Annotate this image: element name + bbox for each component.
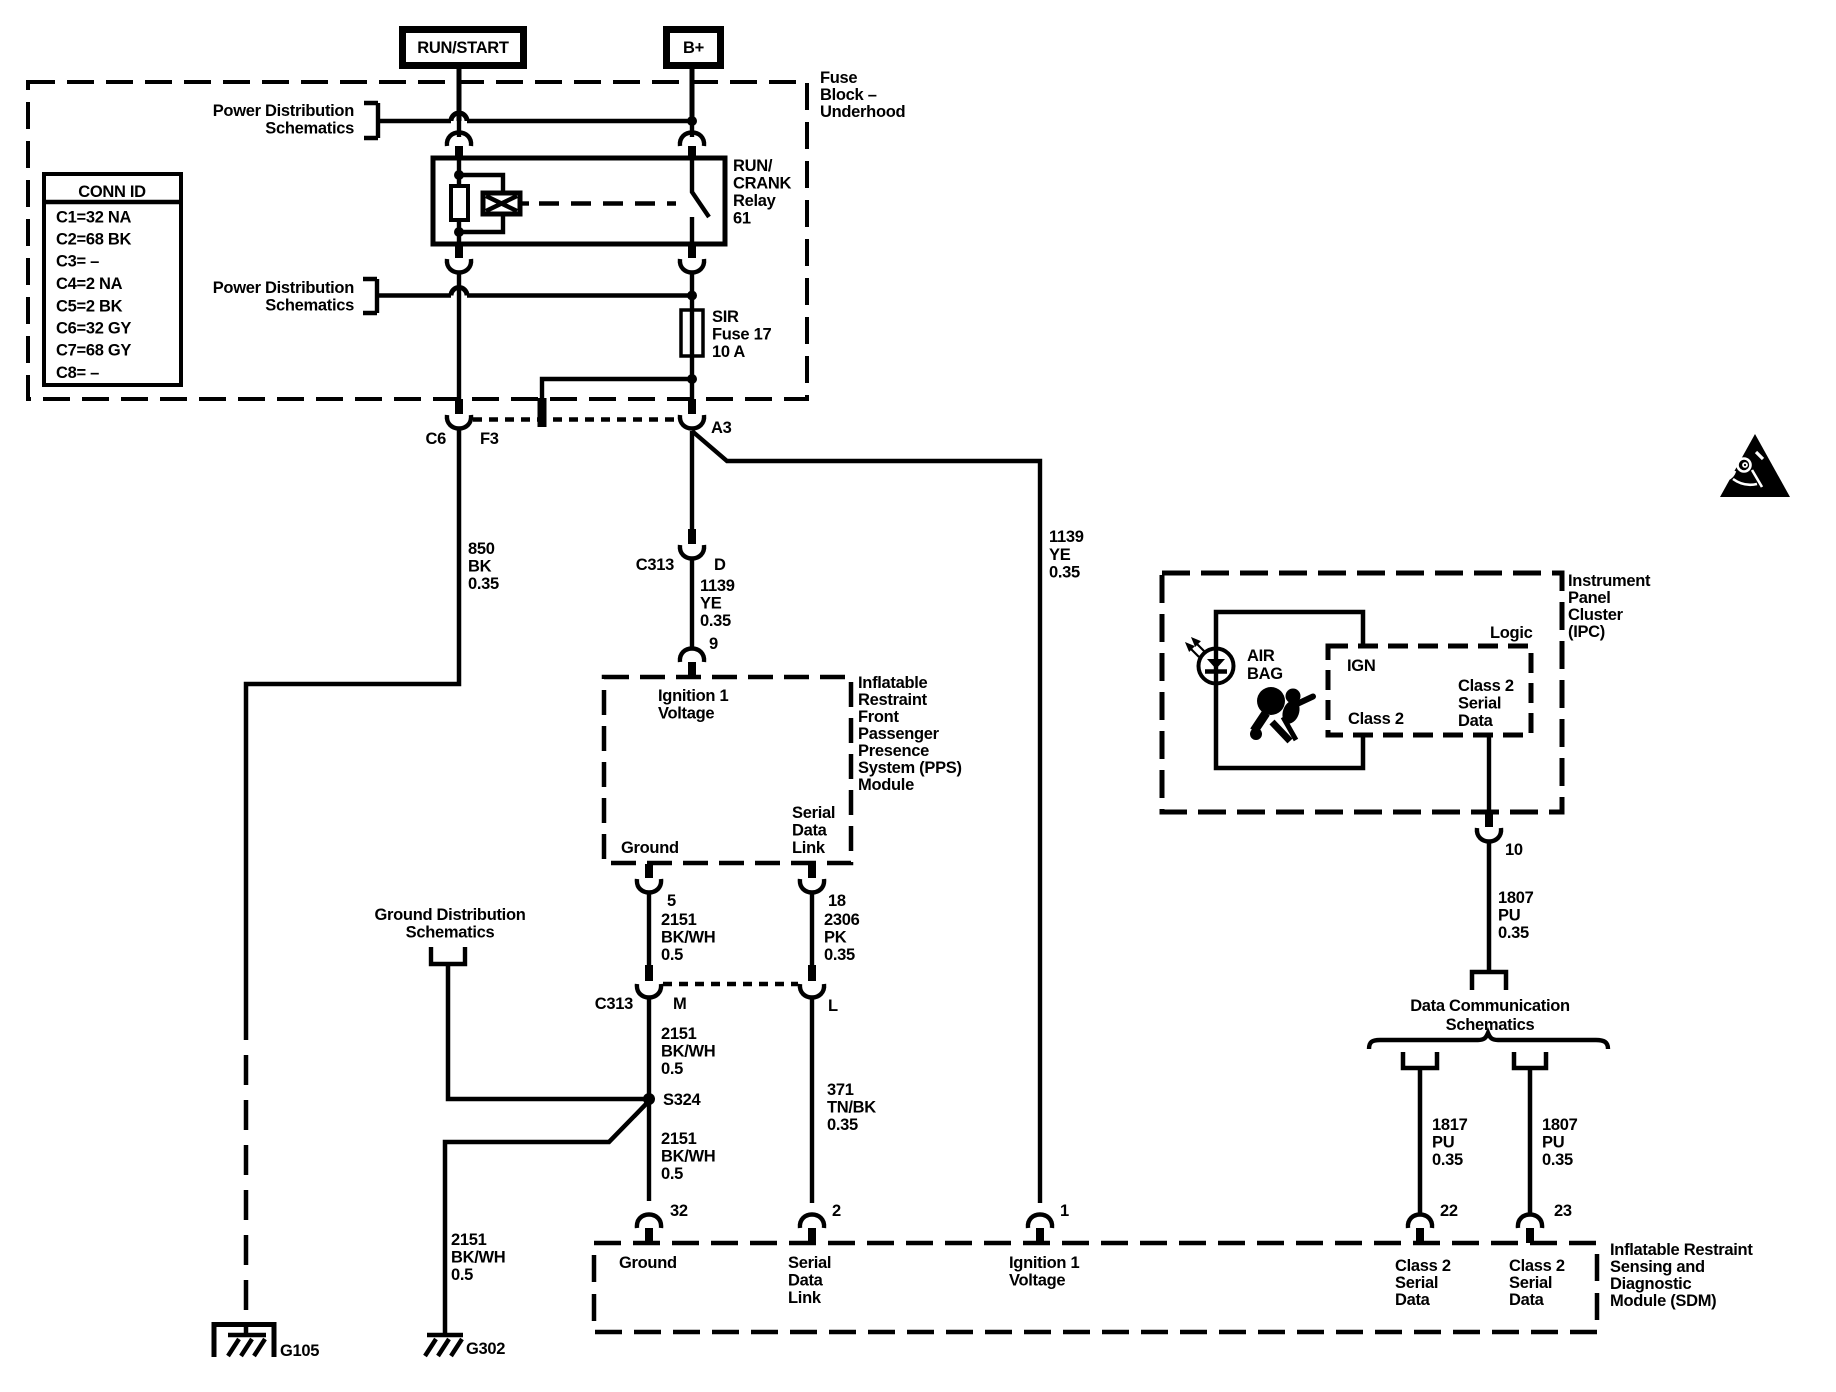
svg-text:BK/WH: BK/WH <box>451 1249 505 1267</box>
svg-text:Sensing and: Sensing and <box>1610 1258 1705 1276</box>
svg-text:850: 850 <box>468 540 495 558</box>
svg-text:D: D <box>714 556 726 574</box>
svg-text:1: 1 <box>1060 1202 1069 1220</box>
svg-text:Serial: Serial <box>1395 1274 1438 1292</box>
svg-text:2151: 2151 <box>661 911 697 929</box>
svg-text:0.35: 0.35 <box>827 1116 858 1134</box>
svg-text:System (PPS): System (PPS) <box>858 759 962 777</box>
svg-text:18: 18 <box>828 892 846 910</box>
svg-text:Fuse: Fuse <box>820 69 857 87</box>
svg-text:BK/WH: BK/WH <box>661 929 715 947</box>
svg-text:0.5: 0.5 <box>661 946 683 964</box>
svg-text:Cluster: Cluster <box>1568 606 1624 624</box>
svg-text:Ground: Ground <box>619 1254 677 1272</box>
svg-text:0.35: 0.35 <box>824 946 855 964</box>
svg-text:BK/WH: BK/WH <box>661 1148 715 1166</box>
svg-text:Ignition 1: Ignition 1 <box>1009 1254 1079 1272</box>
svg-text:Diagnostic: Diagnostic <box>1610 1275 1691 1293</box>
svg-text:F3: F3 <box>480 430 499 448</box>
svg-text:1817: 1817 <box>1432 1116 1468 1134</box>
svg-text:32: 32 <box>670 1202 688 1220</box>
svg-text:10: 10 <box>1505 841 1523 859</box>
svg-text:9: 9 <box>709 635 718 653</box>
svg-text:5: 5 <box>667 892 676 910</box>
svg-text:Schematics: Schematics <box>406 924 495 942</box>
svg-text:C6=32 GY: C6=32 GY <box>56 320 131 338</box>
svg-text:Module (SDM): Module (SDM) <box>1610 1292 1716 1310</box>
svg-text:C313: C313 <box>636 556 674 574</box>
svg-text:PK: PK <box>824 929 847 947</box>
svg-text:Serial: Serial <box>1458 695 1501 713</box>
svg-text:1139: 1139 <box>1049 528 1084 546</box>
svg-text:(IPC): (IPC) <box>1568 623 1605 641</box>
svg-text:Class 2: Class 2 <box>1348 710 1404 728</box>
svg-text:Passenger: Passenger <box>858 725 940 743</box>
svg-text:Inflatable Restraint: Inflatable Restraint <box>1610 1241 1753 1259</box>
svg-text:Ground: Ground <box>621 839 679 857</box>
svg-text:2: 2 <box>832 1202 841 1220</box>
svg-text:G302: G302 <box>466 1340 505 1358</box>
svg-text:0.35: 0.35 <box>700 612 731 630</box>
svg-text:0.5: 0.5 <box>451 1266 473 1284</box>
svg-text:Inflatable: Inflatable <box>858 674 928 692</box>
svg-text:C4=2 NA: C4=2 NA <box>56 275 123 293</box>
svg-text:Panel: Panel <box>1568 589 1611 607</box>
svg-text:371: 371 <box>827 1081 854 1099</box>
svg-text:0.35: 0.35 <box>1049 564 1080 582</box>
svg-text:Ground Distribution: Ground Distribution <box>374 906 525 924</box>
svg-text:BK: BK <box>468 558 492 576</box>
svg-text:BK/WH: BK/WH <box>661 1043 715 1061</box>
svg-text:C3= –: C3= – <box>56 253 99 271</box>
svg-text:2306: 2306 <box>824 911 860 929</box>
svg-text:Logic: Logic <box>1490 624 1533 642</box>
svg-text:0.35: 0.35 <box>1542 1151 1573 1169</box>
svg-text:Data: Data <box>1395 1291 1431 1309</box>
svg-text:Schematics: Schematics <box>265 297 354 315</box>
svg-text:C7=68 GY: C7=68 GY <box>56 342 131 360</box>
svg-text:Data Communication: Data Communication <box>1410 997 1570 1015</box>
svg-text:Power Distribution: Power Distribution <box>213 102 354 120</box>
svg-text:Block –: Block – <box>820 86 877 104</box>
svg-text:IGN: IGN <box>1347 657 1375 675</box>
svg-text:C2=68 BK: C2=68 BK <box>56 231 131 249</box>
svg-text:AIR: AIR <box>1247 647 1275 665</box>
svg-text:CONN ID: CONN ID <box>78 183 146 201</box>
svg-text:0.35: 0.35 <box>1498 924 1529 942</box>
svg-text:2151: 2151 <box>451 1231 487 1249</box>
svg-text:SIR: SIR <box>712 308 739 326</box>
svg-text:Schematics: Schematics <box>1446 1016 1535 1034</box>
svg-text:1807: 1807 <box>1542 1116 1578 1134</box>
svg-text:YE: YE <box>1049 546 1071 564</box>
svg-text:BAG: BAG <box>1247 665 1283 683</box>
svg-text:Data: Data <box>1458 712 1494 730</box>
svg-text:L: L <box>828 997 838 1015</box>
svg-text:Link: Link <box>792 839 826 857</box>
svg-text:RUN/START: RUN/START <box>417 39 509 57</box>
svg-text:Class 2: Class 2 <box>1395 1257 1451 1275</box>
svg-text:Class 2: Class 2 <box>1458 677 1514 695</box>
svg-text:PU: PU <box>1432 1134 1454 1152</box>
svg-text:Front: Front <box>858 708 899 726</box>
svg-text:C6: C6 <box>426 430 447 448</box>
svg-text:C313: C313 <box>595 995 633 1013</box>
svg-text:M: M <box>673 995 686 1013</box>
svg-text:Restraint: Restraint <box>858 691 928 709</box>
svg-text:22: 22 <box>1440 1202 1458 1220</box>
svg-text:2151: 2151 <box>661 1130 697 1148</box>
svg-text:0.35: 0.35 <box>468 575 499 593</box>
svg-text:C1=32 NA: C1=32 NA <box>56 209 131 227</box>
svg-text:Data: Data <box>1509 1291 1545 1309</box>
svg-text:B+: B+ <box>683 39 704 57</box>
svg-text:Module: Module <box>858 776 914 794</box>
svg-text:Fuse 17: Fuse 17 <box>712 326 771 344</box>
svg-text:Data: Data <box>788 1272 824 1290</box>
svg-text:PU: PU <box>1498 907 1520 925</box>
svg-text:Ignition 1: Ignition 1 <box>658 687 728 705</box>
svg-text:61: 61 <box>733 210 751 228</box>
svg-text:Underhood: Underhood <box>820 103 905 121</box>
svg-text:Power Distribution: Power Distribution <box>213 279 354 297</box>
svg-text:Presence: Presence <box>858 742 929 760</box>
svg-text:Schematics: Schematics <box>265 120 354 138</box>
svg-text:C8= –: C8= – <box>56 364 99 382</box>
svg-text:Voltage: Voltage <box>658 705 714 723</box>
svg-text:Data: Data <box>792 822 828 840</box>
svg-text:Serial: Serial <box>792 804 835 822</box>
svg-text:1807: 1807 <box>1498 889 1534 907</box>
svg-text:Link: Link <box>788 1289 822 1307</box>
svg-text:RUN/: RUN/ <box>733 157 773 175</box>
svg-text:Relay: Relay <box>733 192 777 210</box>
svg-text:0.5: 0.5 <box>661 1060 683 1078</box>
svg-text:Serial: Serial <box>1509 1274 1552 1292</box>
svg-text:C5=2 BK: C5=2 BK <box>56 298 123 316</box>
svg-text:YE: YE <box>700 595 722 613</box>
svg-text:Class 2: Class 2 <box>1509 1257 1565 1275</box>
svg-text:CRANK: CRANK <box>733 175 791 193</box>
svg-text:Instrument: Instrument <box>1568 572 1651 590</box>
svg-text:0.5: 0.5 <box>661 1165 683 1183</box>
svg-text:S324: S324 <box>663 1091 701 1109</box>
svg-text:23: 23 <box>1554 1202 1572 1220</box>
svg-text:10 A: 10 A <box>712 343 745 361</box>
svg-text:1139: 1139 <box>700 577 735 595</box>
svg-text:Serial: Serial <box>788 1254 831 1272</box>
svg-text:Voltage: Voltage <box>1009 1272 1065 1290</box>
svg-text:PU: PU <box>1542 1134 1564 1152</box>
svg-text:TN/BK: TN/BK <box>827 1099 876 1117</box>
svg-text:A3: A3 <box>711 419 732 437</box>
svg-text:2151: 2151 <box>661 1025 697 1043</box>
svg-text:G105: G105 <box>280 1342 319 1360</box>
svg-text:0.35: 0.35 <box>1432 1151 1463 1169</box>
